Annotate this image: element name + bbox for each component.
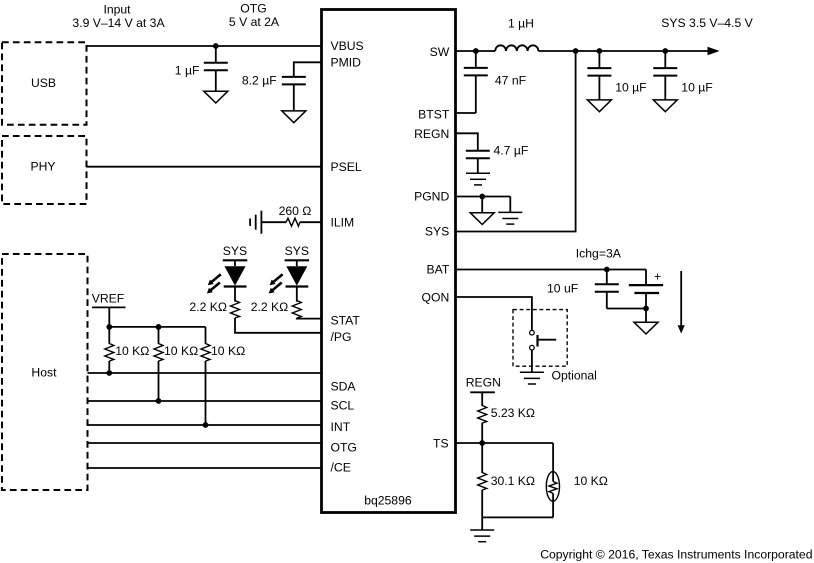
wire switch to ground [531,350,533,372]
svg-text:INT: INT [331,420,351,434]
resistor R4 10 KΩ [158,327,160,344]
battery BT1 [645,270,647,286]
svg-text:/CE: /CE [331,461,351,475]
wire VBUS from USB to pin VBUS [87,45,322,47]
svg-text:1 µF: 1 µF [175,63,200,77]
wire R5 bottom to INT [205,361,207,425]
ground (signal, rotated) at ILIM resistor [250,211,261,234]
svg-text:Host: Host [31,366,57,380]
svg-text:8.2 µF: 8.2 µF [242,74,277,88]
capacitor C2 8.2uF [282,77,306,85]
junction SDA / R3 [106,370,112,376]
wire PSEL from PHY [87,166,322,168]
capacitor C3 47nF bootstrap [475,51,477,68]
wire SYS feedback [456,51,576,232]
wire REGN rail down [481,392,483,406]
wire OTG from Host [88,442,322,444]
wire R7 to ground rail [481,490,483,517]
ground (earth) under C1 [204,91,228,103]
svg-text:SYS: SYS [223,244,247,258]
svg-text:Ichg=3A: Ichg=3A [576,247,622,261]
svg-text:10 KΩ: 10 KΩ [211,344,245,358]
svg-text:SYS 3.5 V–4.5 V: SYS 3.5 V–4.5 V [661,16,753,30]
svg-text:+: + [654,270,661,284]
ground (earth) under C2 [282,111,306,123]
ground (earth) under C5 [653,100,677,112]
svg-text:PHY: PHY [30,159,55,173]
ground (signal) under switch [520,372,544,384]
capacitor C6 4.7uF [466,151,490,159]
svg-text:Copyright © 2016, Texas Instru: Copyright © 2016, Texas Instruments Inco… [540,548,812,562]
svg-text:/PG: /PG [331,330,352,344]
resistor R3 10 KΩ [105,344,114,362]
svg-text:10 KΩ: 10 KΩ [164,344,198,358]
svg-text:SW: SW [430,45,450,59]
ground (earth) under C4 [587,100,611,112]
ground (signal) TS divider [470,530,494,542]
svg-text:Input: Input [103,3,131,17]
switch S1 contact top [530,330,535,335]
Host block [2,254,88,490]
wire PGND [456,196,511,198]
wire C7 to battery bottom [607,308,646,310]
svg-text:STAT: STAT [331,314,361,328]
svg-text:10 uF: 10 uF [547,281,578,295]
junction C4 [597,48,603,54]
svg-text:REGN: REGN [466,375,501,389]
junction TS [479,440,485,446]
switch S1 contact bottom [530,345,535,350]
junction VBUS / C1 [213,43,219,49]
resistor R6 5.23 KΩ [478,406,487,424]
junction SW / C3 [473,48,479,54]
svg-text:SYS: SYS [285,244,309,258]
capacitor C5 10uF [664,51,666,68]
ground (signal) at PGND [498,212,522,224]
resistor R2 2.2 KΩ [292,301,301,319]
svg-text:bq25896: bq25896 [364,494,412,508]
wire PGND to signal ground [509,197,511,213]
svg-text:SYS: SYS [425,225,449,239]
svg-text:260 Ω: 260 Ω [279,204,312,218]
PHY block [2,136,87,204]
wire R3 bottom to SDA [108,361,110,373]
junction battery bottom [643,306,649,312]
junction VREF rail at R3 [106,324,112,330]
svg-text:10 µF: 10 µF [681,80,712,94]
wire to TS ground [481,517,483,530]
wire SDA from Host [88,372,322,374]
capacitor C7 10uF battery [606,270,608,285]
wire SCL from Host [88,400,322,402]
junction PGND [479,194,485,200]
svg-text:5.23 KΩ: 5.23 KΩ [491,406,535,420]
capacitor C1 1uF [215,46,217,63]
ground (earth) under battery [634,322,658,334]
LED D2 flash arrows [270,273,284,285]
wire R1 to /PG [235,318,322,333]
svg-text:REGN: REGN [414,127,449,141]
svg-text:2.2 KΩ: 2.2 KΩ [189,300,227,314]
LED D1 [234,260,236,266]
wire TS bottom rail [482,516,553,518]
wire SYS rail [538,50,709,52]
junction SYS feedback [573,48,579,54]
switch S1 optional box [513,310,567,367]
IC U1 bq25896 body [322,10,456,513]
wire R4 bottom to SCL [158,361,160,401]
wire BAT [456,269,647,271]
inductor L1 1uH [495,45,538,51]
svg-text:1 µH: 1 µH [508,16,534,30]
svg-text:PGND: PGND [414,190,449,204]
wire BTST [456,112,476,114]
wire INT from Host [88,424,322,426]
thermistor RT1 [552,443,554,482]
arrow SYS output [708,47,720,55]
wire R2 to STAT [297,317,322,320]
svg-text:USB: USB [31,76,56,90]
arrow Ichg current direction [680,271,682,327]
svg-text:OTG: OTG [240,2,266,16]
resistor R1 2.2 KΩ [231,301,240,319]
wire VREF down [108,307,110,344]
svg-text:BTST: BTST [418,107,450,121]
wire PGND to earth [481,197,483,213]
svg-text:BAT: BAT [426,263,449,277]
wire QON to switch [456,297,532,330]
svg-text:VBUS: VBUS [331,39,364,53]
wire REGN to C6 [456,133,478,150]
svg-text:ILIM: ILIM [331,215,355,229]
svg-text:Optional: Optional [552,369,597,383]
svg-text:SCL: SCL [331,399,355,413]
junction C5 [662,48,668,54]
svg-text:PSEL: PSEL [331,160,362,174]
svg-text:4.7 µF: 4.7 µF [494,144,529,158]
svg-text:TS: TS [433,436,449,450]
svg-text:PMID: PMID [331,55,362,69]
svg-text:QON: QON [422,290,450,304]
junction BAT / C7 [604,267,610,273]
junction VREF rail at R4 [156,324,162,330]
svg-text:30.1 KΩ: 30.1 KΩ [491,474,535,488]
svg-text:OTG: OTG [331,441,357,455]
svg-text:10 KΩ: 10 KΩ [115,344,149,358]
ground (signal) under C6 [466,173,490,185]
junction SCL / R4 [156,398,162,404]
svg-text:5 V at 2A: 5 V at 2A [229,15,280,29]
wire pull-up rail [109,326,205,328]
svg-text:10 KΩ: 10 KΩ [574,474,608,488]
capacitor C4 10uF [598,51,600,68]
svg-text:10 µF: 10 µF [615,80,646,94]
resistor R_ILIM 260 Ω [261,221,286,223]
wire R6 to TS [481,423,483,443]
wire /CE from Host [88,467,322,469]
resistor R5 10 KΩ [205,327,207,344]
REGN rail bar [470,391,495,393]
svg-text:47 nF: 47 nF [495,74,526,88]
junction INT / R5 [203,422,209,428]
resistor R7 30.1 KΩ [478,473,487,491]
wire SW rail [456,50,496,52]
svg-text:2.2 KΩ: 2.2 KΩ [251,300,289,314]
svg-text:3.9 V–14 V at 3A: 3.9 V–14 V at 3A [72,16,165,30]
USB connector block [2,42,87,125]
LED D2 [296,260,298,266]
wire PMID to C2 [294,62,322,77]
switch S1 plunger [536,335,538,347]
ground (earth) at PGND [470,213,494,225]
LED D1 flash arrows [208,273,222,285]
wire TS [456,442,554,444]
wire TS down to R7 [481,443,483,473]
svg-text:VREF: VREF [92,292,125,306]
svg-text:SDA: SDA [331,379,357,393]
VREF rail bar [92,306,126,308]
